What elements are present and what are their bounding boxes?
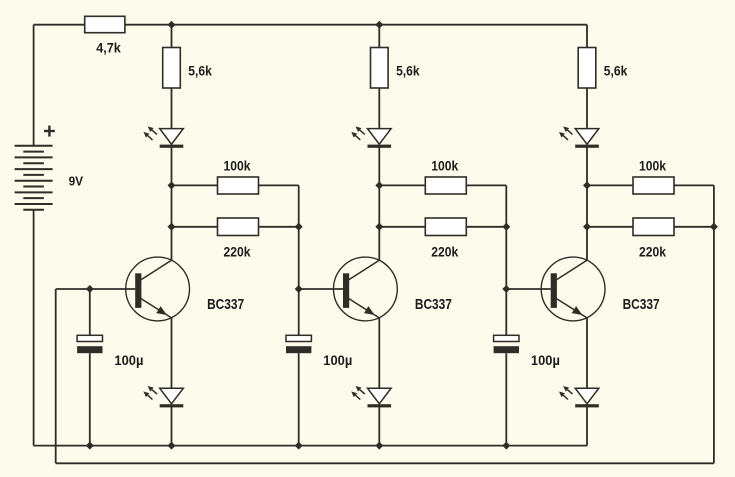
svg-text:5,6k: 5,6k [396,63,420,79]
svg-text:100µ: 100µ [114,352,143,368]
svg-text:100k: 100k [431,157,458,173]
svg-text:220k: 220k [639,243,666,259]
svg-text:100µ: 100µ [531,352,560,368]
svg-text:BC337: BC337 [623,296,660,313]
svg-text:100µ: 100µ [323,352,352,368]
svg-text:4,7k: 4,7k [96,40,121,56]
svg-text:100k: 100k [639,157,666,173]
svg-text:100k: 100k [224,157,251,173]
svg-text:220k: 220k [224,243,251,259]
svg-text:220k: 220k [431,243,458,259]
svg-text:5,6k: 5,6k [604,63,628,79]
svg-text:9V: 9V [69,174,84,189]
svg-text:BC337: BC337 [207,296,244,313]
svg-text:5,6k: 5,6k [188,63,212,79]
svg-text:BC337: BC337 [415,296,452,313]
